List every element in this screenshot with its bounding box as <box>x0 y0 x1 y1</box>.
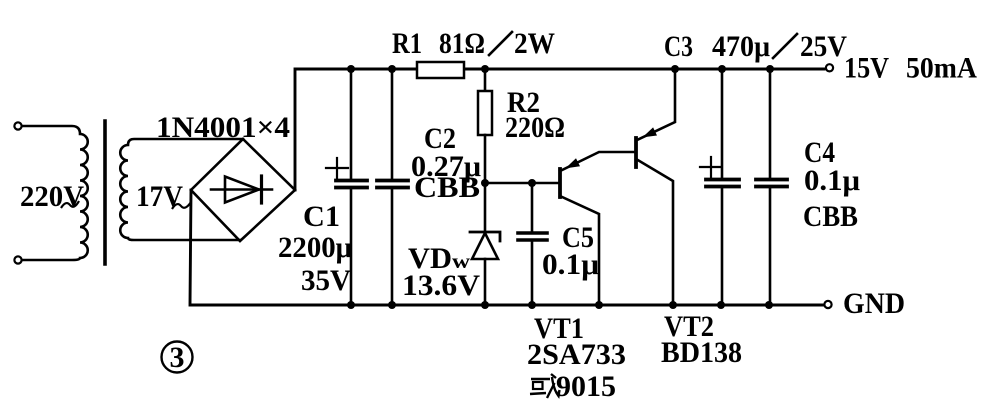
svg-text:220Ω: 220Ω <box>505 111 565 144</box>
svg-text:2W: 2W <box>514 27 555 60</box>
svg-text:81Ω: 81Ω <box>439 27 485 60</box>
svg-text:C3: C3 <box>664 30 693 63</box>
svg-text:2SA733: 2SA733 <box>527 338 626 371</box>
svg-text:R1: R1 <box>392 27 422 60</box>
svg-text:35V: 35V <box>301 264 351 297</box>
svg-text:2200μ: 2200μ <box>278 231 352 264</box>
svg-text:GND: GND <box>843 287 905 320</box>
svg-text:CBB: CBB <box>803 200 858 233</box>
svg-text:3: 3 <box>170 341 185 374</box>
svg-text:CBB: CBB <box>414 171 480 204</box>
svg-text:0.1μ: 0.1μ <box>804 164 860 197</box>
svg-text:0.1μ: 0.1μ <box>542 248 599 281</box>
svg-text:25V: 25V <box>800 30 847 63</box>
svg-text:470μ: 470μ <box>712 30 770 63</box>
svg-text:50mA: 50mA <box>906 52 977 85</box>
svg-text:9015: 9015 <box>556 370 616 403</box>
svg-text:BD138: BD138 <box>661 336 742 369</box>
svg-text:17V: 17V <box>136 180 183 213</box>
svg-text:C1: C1 <box>303 200 340 233</box>
svg-text:220V: 220V <box>20 180 84 213</box>
svg-text:1N4001×4: 1N4001×4 <box>156 111 290 144</box>
svg-text:15V: 15V <box>844 52 889 85</box>
svg-text:13.6V: 13.6V <box>402 269 480 302</box>
